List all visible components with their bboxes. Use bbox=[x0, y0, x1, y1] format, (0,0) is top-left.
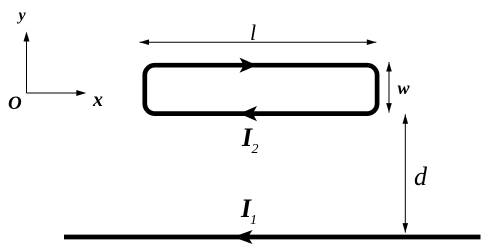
loop bottom current arrow (leftward) bbox=[240, 106, 258, 121]
label x bbox=[93, 90, 103, 110]
label O bbox=[8, 94, 22, 113]
rectangular loop bbox=[145, 65, 377, 113]
d dimension bottom arrowhead bbox=[403, 223, 409, 233]
label w bbox=[398, 79, 410, 97]
label l bbox=[250, 22, 256, 44]
d dimension line bbox=[404, 114, 406, 232]
wire current arrow (leftward) bbox=[233, 230, 253, 244]
y-axis line bbox=[26, 38, 28, 93]
l dimension right arrowhead bbox=[367, 39, 377, 45]
d dimension top arrowhead bbox=[403, 114, 409, 124]
loop top current arrow (rightward) bbox=[240, 58, 258, 73]
label I1 subscript 1 bbox=[250, 214, 257, 228]
x-axis line bbox=[27, 92, 81, 94]
y-axis arrowhead bbox=[24, 32, 30, 42]
straight wire I1 bbox=[64, 235, 481, 240]
l dimension line bbox=[140, 41, 377, 43]
label I2 bbox=[242, 125, 252, 151]
label I1 bbox=[241, 196, 251, 222]
label I2 subscript 2 bbox=[252, 143, 259, 157]
x-axis arrowhead bbox=[76, 90, 86, 96]
w dimension line bbox=[388, 62, 390, 113]
w dimension bottom arrowhead bbox=[386, 103, 392, 113]
label d bbox=[414, 164, 427, 190]
w dimension top arrowhead bbox=[386, 62, 392, 72]
l dimension left arrowhead bbox=[140, 39, 150, 45]
label y bbox=[19, 8, 26, 24]
